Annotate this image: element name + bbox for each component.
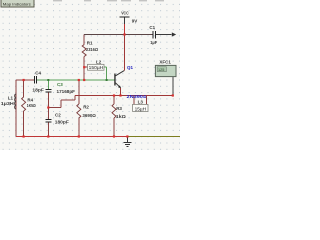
svg-text:1K5Ω: 1K5Ω (27, 103, 36, 108)
svg-text:R3: R3 (116, 106, 122, 111)
svg-text:R4: R4 (27, 97, 33, 102)
svg-text:R1: R1 (87, 41, 93, 46)
svg-text:XFC1: XFC1 (159, 59, 171, 64)
svg-text:9V: 9V (132, 19, 138, 24)
svg-text:Map Indicators: Map Indicators (3, 2, 31, 6)
svg-text:2316Ω: 2316Ω (86, 47, 98, 52)
svg-text:125: 125 (158, 68, 164, 72)
svg-text:1kΩ: 1kΩ (116, 114, 126, 119)
svg-text:2N3904: 2N3904 (127, 94, 147, 99)
svg-text:18pF: 18pF (32, 88, 44, 93)
svg-text:C4: C4 (35, 70, 41, 75)
svg-text:15µH: 15µH (135, 106, 147, 111)
svg-text:3690Ω: 3690Ω (82, 113, 96, 118)
svg-text:1µ3H: 1µ3H (1, 101, 14, 106)
svg-text:150µH: 150µH (89, 65, 104, 70)
svg-text:VCC: VCC (121, 10, 129, 15)
svg-text:180pF: 180pF (55, 120, 69, 125)
svg-text:Q1: Q1 (127, 65, 134, 70)
svg-text:R2: R2 (83, 105, 89, 110)
svg-text:1µF: 1µF (150, 40, 157, 45)
svg-text:C1: C1 (149, 25, 155, 30)
svg-text:L2: L2 (96, 60, 102, 65)
svg-text:L3: L3 (138, 100, 144, 105)
svg-text:C2: C2 (55, 113, 61, 118)
svg-text:17168pF: 17168pF (57, 89, 76, 94)
svg-text:C3: C3 (57, 82, 63, 87)
